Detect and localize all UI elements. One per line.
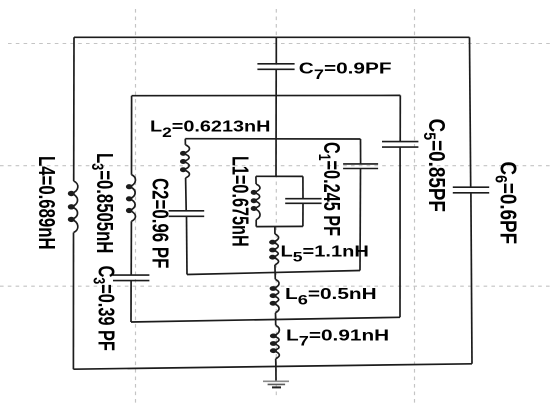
wire inner loop left lower xyxy=(255,220,257,227)
wire center above bottom node xyxy=(275,359,277,367)
capacitor C1 xyxy=(285,199,321,204)
wire second loop left middle xyxy=(130,221,132,274)
capacitor C2 xyxy=(169,211,205,217)
wire third loop right lower xyxy=(359,169,362,271)
wire third loop bottom xyxy=(187,271,360,275)
wire outer loop left upper xyxy=(73,37,75,181)
wire third loop left lower xyxy=(186,216,189,274)
svg-text:C3=0.39 PF: C3=0.39 PF xyxy=(89,266,118,351)
inductor L6 xyxy=(270,279,279,312)
svg-text:L1=0.675nH: L1=0.675nH xyxy=(227,156,252,247)
wire third loop left upper xyxy=(184,139,186,145)
wire second loop left lower xyxy=(130,281,132,322)
svg-text:L7=0.91nH: L7=0.91nH xyxy=(286,326,389,349)
wire outer loop bottom xyxy=(73,364,472,369)
grid vertical dashed line left xyxy=(135,9,137,406)
wire second loop top xyxy=(132,94,401,96)
grid vertical dashed line right xyxy=(414,9,416,406)
capacitor C6 xyxy=(453,187,489,193)
wire second loop left upper xyxy=(131,96,133,175)
capacitor C3 xyxy=(113,275,149,281)
svg-text:C7=0.9PF: C7=0.9PF xyxy=(299,59,392,82)
inductor L3 xyxy=(126,175,136,222)
inductor L5 xyxy=(269,234,278,265)
wire outer loop right lower xyxy=(471,193,472,364)
svg-text:L5=1.1nH: L5=1.1nH xyxy=(281,242,369,265)
svg-text:L3=0.8505nH: L3=0.8505nH xyxy=(88,153,117,253)
grid horizontal dashed line top xyxy=(8,43,550,45)
wire inner loop right lower xyxy=(302,203,304,226)
wire third loop right upper xyxy=(360,139,362,164)
svg-text:C2=0.96 PF: C2=0.96 PF xyxy=(147,178,172,268)
wire center between L5 and L6 xyxy=(274,265,276,280)
wire second loop right lower xyxy=(399,147,401,317)
wire second loop bottom xyxy=(131,317,400,322)
wire ground stem xyxy=(275,366,277,381)
wire center top segment xyxy=(275,37,277,64)
wire third loop top xyxy=(185,138,360,140)
inductor L7 xyxy=(270,325,279,358)
ground xyxy=(263,381,289,387)
wire center below inner loop xyxy=(274,227,276,234)
svg-text:C6=0.6PF: C6=0.6PF xyxy=(491,162,520,245)
wire outer loop right upper xyxy=(470,37,471,187)
wire inner loop right upper xyxy=(302,176,304,198)
capacitor C4 (unlabeled) xyxy=(343,164,378,169)
svg-text:L6=0.5nH: L6=0.5nH xyxy=(285,285,377,308)
inductor L1 xyxy=(251,184,260,220)
wire outer loop top xyxy=(74,36,470,38)
capacitor C7 xyxy=(257,64,294,70)
wire outer loop left lower xyxy=(72,233,74,370)
svg-text:L2=0.6213nH: L2=0.6213nH xyxy=(150,117,270,140)
svg-text:C5=0.85PF: C5=0.85PF xyxy=(420,119,449,212)
inductor L2 xyxy=(180,145,189,178)
svg-text:L4=0.689nH: L4=0.689nH xyxy=(33,156,58,250)
wire center between L6 and L7 xyxy=(275,313,277,326)
grid horizontal dashed line bottom xyxy=(0,285,550,287)
svg-text:C1=0.245 PF: C1=0.245 PF xyxy=(314,142,343,236)
grid horizontal dashed line middle xyxy=(0,165,550,167)
wire inner loop top xyxy=(256,175,303,177)
capacitor C5 xyxy=(382,142,418,148)
grid vertical dashed line center xyxy=(275,9,277,399)
wire inner loop left upper xyxy=(255,176,257,184)
inductor L4 xyxy=(68,181,78,233)
wire third loop left middle xyxy=(185,178,188,211)
wire center upper segment xyxy=(275,69,277,176)
wire second loop right upper xyxy=(399,95,401,141)
wire inner loop bottom xyxy=(256,225,303,227)
